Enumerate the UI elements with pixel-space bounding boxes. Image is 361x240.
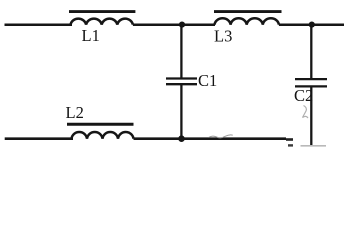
capacitor C2 plates (295, 78, 327, 80)
wire bottom broken stub (286, 138, 293, 141)
wire top-left lead (5, 23, 73, 26)
node junction top C1 (179, 22, 185, 28)
wire C2 upper lead (310, 25, 312, 79)
capacitor C1 plates (166, 77, 197, 79)
svg-text:L1: L1 (82, 26, 100, 45)
wire bottom-middle (134, 137, 287, 140)
wire C1 lower lead (180, 85, 182, 139)
wire bottom-right faint remnant (301, 145, 327, 147)
node junction bottom C1 (178, 135, 185, 142)
inductor L3 core bar (214, 10, 282, 13)
svg-text:C1: C1 (198, 71, 217, 90)
inductor L2 coil (72, 132, 134, 139)
node junction top C2 (309, 22, 315, 28)
svg-text:L3: L3 (214, 27, 232, 46)
wire bottom-left lead (5, 137, 73, 140)
inductor L1 coil (71, 19, 133, 25)
inductor L2 core bar (67, 123, 134, 126)
wire top-right (279, 23, 344, 26)
svg-text:L2: L2 (66, 103, 84, 122)
wire top-middle (133, 23, 215, 26)
wire faint squiggle remnant (209, 135, 233, 138)
wire bottom broken stub lower fragment (288, 144, 293, 146)
node faint glyph remnant below C2 (303, 106, 309, 119)
wire C1 upper lead (180, 25, 182, 78)
inductor L1 core bar (69, 10, 135, 13)
inductor L3 coil (215, 18, 279, 24)
wire C2 lower lead (310, 87, 312, 146)
